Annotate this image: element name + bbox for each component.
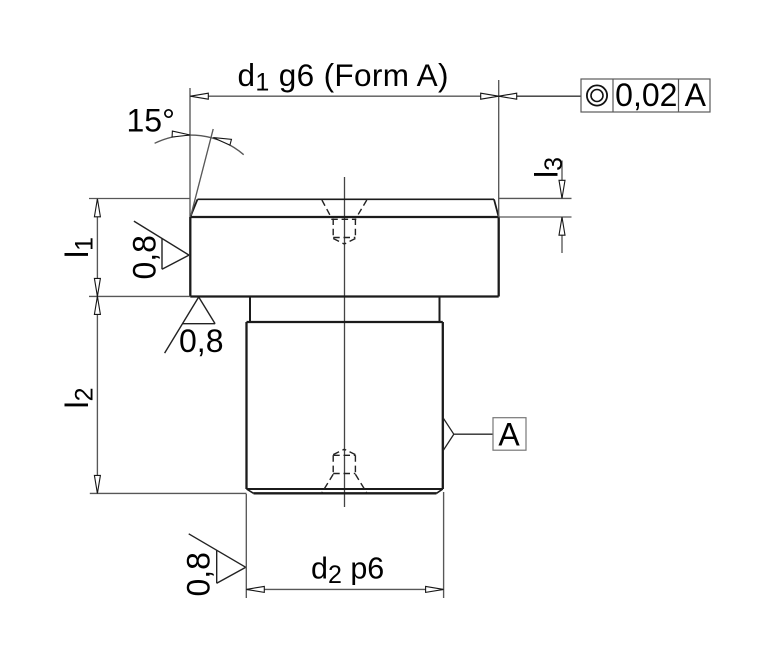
dimension d1 line: [190, 95, 499, 97]
label l2: [59, 387, 99, 408]
dimension d1 arrows: [190, 93, 516, 99]
shank sides: [247, 322, 443, 489]
label l1: [59, 237, 99, 258]
shank bottom chamfer corners: [247, 489, 443, 493]
shank bottom face: [254, 492, 437, 494]
dimension d2 arrows: [246, 586, 443, 592]
roughness symbol on shank: [189, 534, 246, 584]
collar body sides and bottom: [190, 217, 498, 297]
neck undercut right: [439, 297, 441, 323]
svg-text:A: A: [685, 77, 707, 113]
svg-text:15°: 15°: [127, 102, 175, 138]
label 0,02: [615, 77, 677, 113]
wire centerline vertical: [344, 177, 346, 507]
neck undercut left: [249, 297, 251, 323]
concentricity symbol: [587, 85, 607, 105]
dimension l2 arrows: [94, 296, 100, 493]
collar right 15deg chamfer edge: [494, 199, 499, 217]
svg-text:l3: l3: [528, 157, 568, 178]
dimension l1 line: [96, 199, 98, 296]
dimension l3 extension lines: [499, 198, 572, 217]
svg-text:l1: l1: [59, 237, 99, 258]
datum A triangle: [443, 418, 453, 450]
svg-text:l2: l2: [59, 387, 99, 408]
svg-text:A: A: [498, 417, 520, 453]
angle 15deg arc: [155, 135, 244, 155]
dimension l3 witness lines: [561, 161, 563, 254]
roughness symbol on collar side: [134, 221, 189, 269]
angle 15deg extension line: [191, 129, 213, 215]
label datum ref A in frame: [685, 77, 707, 113]
dimension l1 arrows: [94, 199, 100, 297]
label d1 g6 (Form A): [238, 57, 449, 97]
collar left 15deg chamfer edge: [190, 199, 197, 217]
svg-text:d2 p6: d2 p6: [311, 552, 384, 590]
dimension l1 extension line top: [89, 198, 190, 200]
label datum A: [498, 417, 520, 453]
label 0,8 collar bottom: [179, 323, 223, 359]
dimension l3 arrows: [559, 180, 565, 235]
datum A box: [493, 418, 526, 451]
label 15deg: [127, 102, 175, 138]
label 0,8 shank: [181, 552, 217, 596]
hidden bottom countersunk hole: [322, 449, 367, 492]
datum A leader: [454, 433, 493, 435]
dimension d2 line: [246, 588, 443, 590]
collar chamfer base line: [190, 216, 498, 218]
svg-text:0,8: 0,8: [181, 552, 217, 596]
label l3: [528, 157, 568, 178]
svg-text:0,8: 0,8: [179, 323, 223, 359]
dimension d1 extension lines: [190, 80, 499, 217]
roughness symbol on collar bottom: [165, 297, 216, 353]
tolerance frame box: [581, 79, 710, 112]
dimension d1 leader to tolerance frame: [499, 95, 581, 97]
dimension d2 extension lines: [246, 492, 443, 598]
svg-text:d1 g6 (Form A): d1 g6 (Form A): [238, 57, 449, 97]
label d2 p6: [311, 552, 384, 590]
shank bottom chamfer edge line: [247, 488, 443, 490]
shank shoulder line: [247, 321, 443, 323]
svg-text:0,02: 0,02: [615, 77, 677, 113]
svg-text:0,8: 0,8: [127, 235, 163, 279]
dimension l1/l2 shared extension line: [89, 295, 190, 297]
dimension l2 extension line bottom: [90, 492, 247, 494]
collar top face edge: [198, 198, 495, 200]
angle 15deg arrows: [172, 131, 231, 145]
hidden top countersunk hole: [322, 200, 367, 244]
dimension l2 line: [96, 297, 98, 493]
label 0,8 collar side: [127, 235, 163, 279]
